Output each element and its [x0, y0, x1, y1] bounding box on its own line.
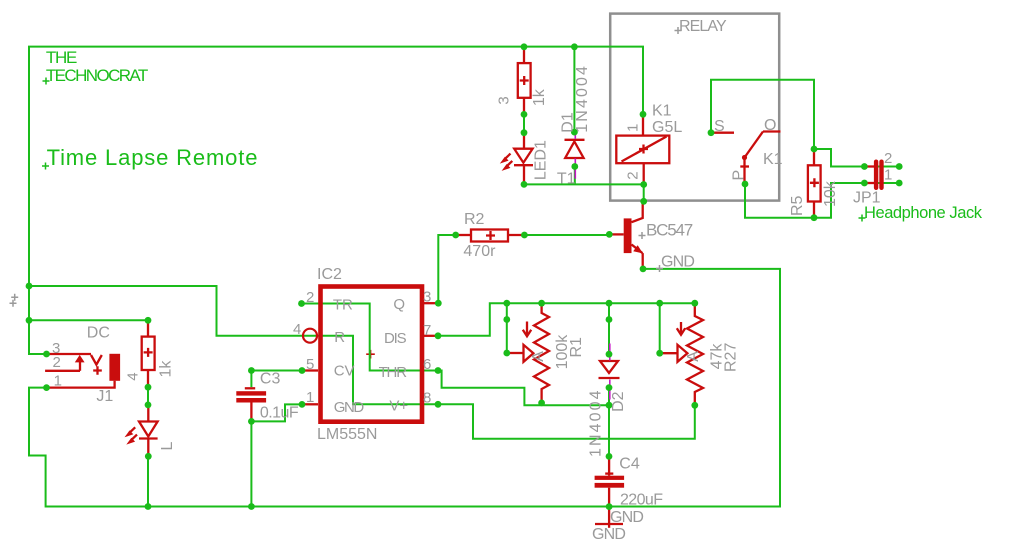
svg-text:JP1: JP1	[853, 190, 881, 207]
svg-text:R27: R27	[723, 343, 740, 372]
svg-text:O: O	[764, 117, 776, 134]
svg-text:K1: K1	[652, 102, 672, 119]
svg-text:470r: 470r	[463, 243, 496, 260]
svg-text:6: 6	[423, 356, 431, 373]
svg-text:V+: V+	[389, 398, 408, 415]
svg-text:THR: THR	[379, 364, 408, 381]
svg-text:GND: GND	[661, 254, 694, 271]
svg-text:RELAY: RELAY	[679, 18, 727, 35]
svg-text:1: 1	[624, 124, 641, 132]
svg-text:10k: 10k	[822, 180, 839, 207]
svg-text:4: 4	[124, 372, 141, 380]
svg-text:0.1uF: 0.1uF	[260, 404, 299, 421]
svg-text:1N4004: 1N4004	[574, 64, 591, 133]
svg-text:1k: 1k	[158, 360, 175, 378]
svg-text:G5L: G5L	[652, 119, 682, 136]
svg-text:2: 2	[306, 289, 314, 306]
svg-text:1: 1	[306, 389, 314, 406]
svg-text:GND: GND	[610, 509, 643, 526]
svg-text:A: A	[685, 351, 702, 362]
svg-text:Headphone Jack: Headphone Jack	[864, 204, 983, 222]
svg-text:S: S	[714, 118, 725, 135]
svg-text:4: 4	[293, 321, 301, 338]
svg-text:1N4004: 1N4004	[588, 388, 605, 457]
svg-text:C3: C3	[260, 370, 281, 387]
svg-text:T1: T1	[557, 171, 576, 188]
svg-text:K1: K1	[763, 151, 783, 168]
svg-text:IC2: IC2	[317, 266, 342, 283]
svg-text:LM555N: LM555N	[317, 426, 377, 443]
svg-text:2: 2	[884, 150, 892, 167]
svg-text:GND: GND	[334, 399, 365, 416]
svg-text:R2: R2	[464, 211, 485, 228]
svg-text:J1: J1	[96, 388, 113, 405]
svg-text:LED1: LED1	[532, 140, 549, 180]
svg-text:5: 5	[306, 356, 314, 373]
svg-text:2: 2	[53, 354, 61, 371]
svg-text:DIS: DIS	[384, 330, 407, 347]
svg-text:R5: R5	[789, 195, 806, 216]
svg-text:1: 1	[54, 372, 62, 389]
svg-text:8: 8	[423, 389, 431, 406]
svg-text:R: R	[334, 329, 345, 346]
svg-text:BC547: BC547	[646, 221, 693, 240]
svg-text:DC: DC	[87, 325, 110, 342]
svg-text:A: A	[530, 351, 547, 362]
svg-text:CV: CV	[334, 363, 355, 380]
svg-text:Q: Q	[393, 296, 405, 313]
svg-text:1: 1	[884, 166, 892, 183]
svg-text:3: 3	[495, 96, 512, 104]
svg-text:GND: GND	[592, 526, 625, 543]
svg-text:L: L	[159, 442, 176, 451]
svg-text:1k: 1k	[531, 88, 548, 106]
svg-text:TECHNOCRAT: TECHNOCRAT	[46, 66, 148, 85]
svg-text:3: 3	[423, 289, 431, 306]
svg-text:Time Lapse Remote: Time Lapse Remote	[47, 145, 259, 170]
svg-text:THE: THE	[46, 48, 77, 67]
svg-text:220uF: 220uF	[620, 492, 663, 509]
svg-text:2: 2	[624, 171, 641, 179]
svg-text:D2: D2	[610, 391, 627, 412]
svg-text:7: 7	[423, 322, 431, 339]
svg-text:R1: R1	[568, 337, 585, 358]
svg-text:TR: TR	[333, 297, 353, 314]
svg-text:C4: C4	[619, 456, 640, 473]
svg-text:P: P	[731, 170, 748, 181]
